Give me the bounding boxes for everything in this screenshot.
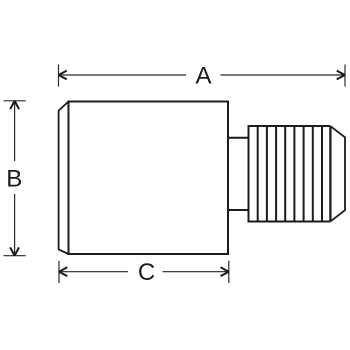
dimension B top arrowhead	[10, 101, 19, 109]
dimension C extension tick right	[228, 261, 230, 283]
dimension A line right segment	[221, 74, 346, 76]
thread crest line 3	[275, 126, 277, 222]
dimension A extension tick left	[58, 65, 60, 87]
dimension B bottom arrowhead	[10, 247, 19, 255]
neck bottom line	[228, 209, 249, 211]
left face chamfer of body	[59, 102, 69, 255]
dimension A line left segment	[59, 74, 187, 76]
neck top line	[228, 137, 249, 139]
dimension A extension tick right	[344, 65, 346, 87]
chamfered tip outline	[331, 126, 345, 221]
thread end line	[329, 126, 331, 222]
svg-text:B: B	[6, 166, 22, 193]
dimension B extension tick top	[4, 100, 26, 102]
thread crest line 8	[321, 126, 323, 222]
thread crest line 7	[312, 126, 314, 222]
dimension C line right segment	[163, 271, 229, 273]
thread crest line 5	[293, 126, 295, 222]
dimension B line upper segment	[14, 101, 16, 161]
dimension B extension tick bottom	[4, 255, 26, 257]
fitting body (main cylinder) outline	[69, 102, 229, 255]
dimension C right arrowhead	[221, 267, 229, 276]
thread crest line 4	[284, 126, 286, 222]
dimension C extension tick left	[58, 261, 60, 283]
thread crest line 1	[257, 126, 259, 222]
dimension A left arrowhead	[59, 71, 67, 80]
svg-text:C: C	[138, 259, 155, 286]
thread crest line 2	[266, 126, 268, 222]
dimension B line lower segment	[14, 194, 16, 256]
dimension A right arrowhead	[337, 71, 345, 80]
thread crest line 6	[303, 126, 305, 222]
dimension C line left segment	[59, 271, 128, 273]
threaded section outline	[249, 126, 331, 222]
svg-text:A: A	[195, 63, 211, 90]
dimension C left arrowhead	[59, 267, 67, 276]
